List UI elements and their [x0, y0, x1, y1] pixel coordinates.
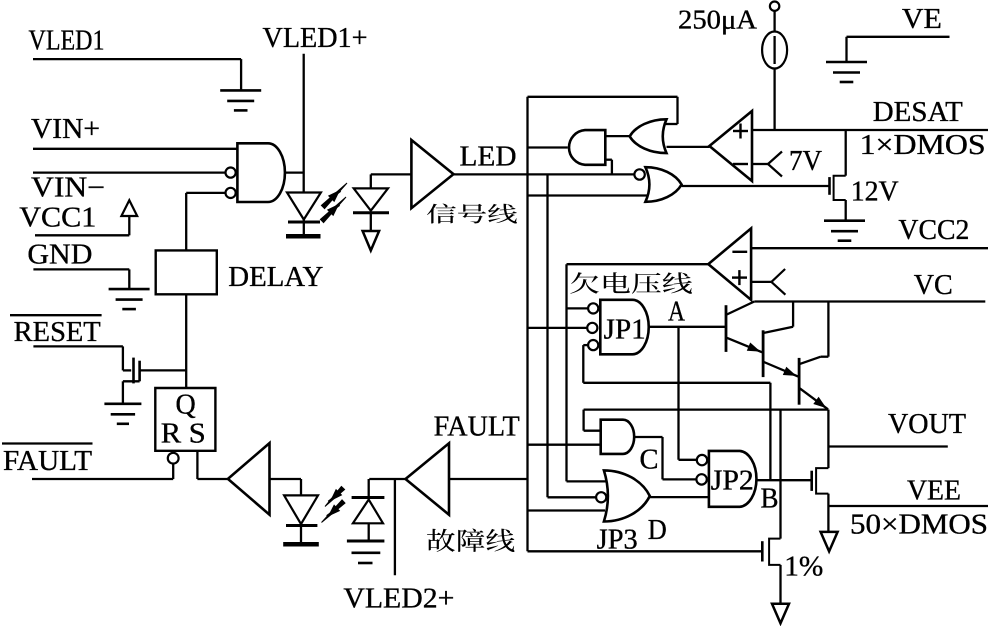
- svg-text:VEE: VEE: [907, 476, 961, 507]
- svg-text:50×DMOS: 50×DMOS: [850, 510, 988, 541]
- svg-text:VLED2+: VLED2+: [343, 584, 454, 615]
- svg-text:DESAT: DESAT: [873, 97, 963, 128]
- svg-text:1%: 1%: [784, 552, 823, 583]
- svg-text:FAULT: FAULT: [3, 446, 92, 477]
- svg-text:A: A: [668, 297, 686, 328]
- svg-text:D: D: [648, 515, 667, 546]
- svg-text:Q: Q: [176, 390, 196, 421]
- svg-text:1×DMOS: 1×DMOS: [860, 130, 986, 161]
- svg-text:12V: 12V: [851, 177, 899, 208]
- svg-text:B: B: [761, 484, 779, 515]
- svg-text:VE: VE: [902, 4, 942, 35]
- svg-text:FAULT: FAULT: [434, 412, 520, 443]
- svg-text:RESET: RESET: [14, 317, 101, 348]
- svg-text:VCC1: VCC1: [19, 203, 96, 234]
- svg-text:250μA: 250μA: [678, 5, 758, 35]
- svg-text:JP2: JP2: [711, 466, 754, 497]
- svg-text:7V: 7V: [789, 146, 822, 177]
- svg-text:JP3: JP3: [597, 525, 638, 556]
- svg-text:C: C: [640, 445, 659, 476]
- svg-text:VLED1+: VLED1+: [263, 23, 368, 54]
- svg-text:VIN−: VIN−: [31, 173, 105, 204]
- svg-text:GND: GND: [27, 239, 92, 270]
- svg-text:VCC2: VCC2: [898, 215, 969, 246]
- svg-text:VC: VC: [914, 270, 953, 301]
- svg-text:VLED1: VLED1: [29, 26, 105, 57]
- svg-text:R S: R S: [161, 418, 206, 449]
- svg-text:VIN+: VIN+: [31, 114, 100, 145]
- svg-text:LED: LED: [460, 142, 517, 173]
- svg-text:VOUT: VOUT: [888, 409, 966, 440]
- svg-text:JP1: JP1: [604, 315, 646, 346]
- svg-text:DELAY: DELAY: [228, 262, 323, 293]
